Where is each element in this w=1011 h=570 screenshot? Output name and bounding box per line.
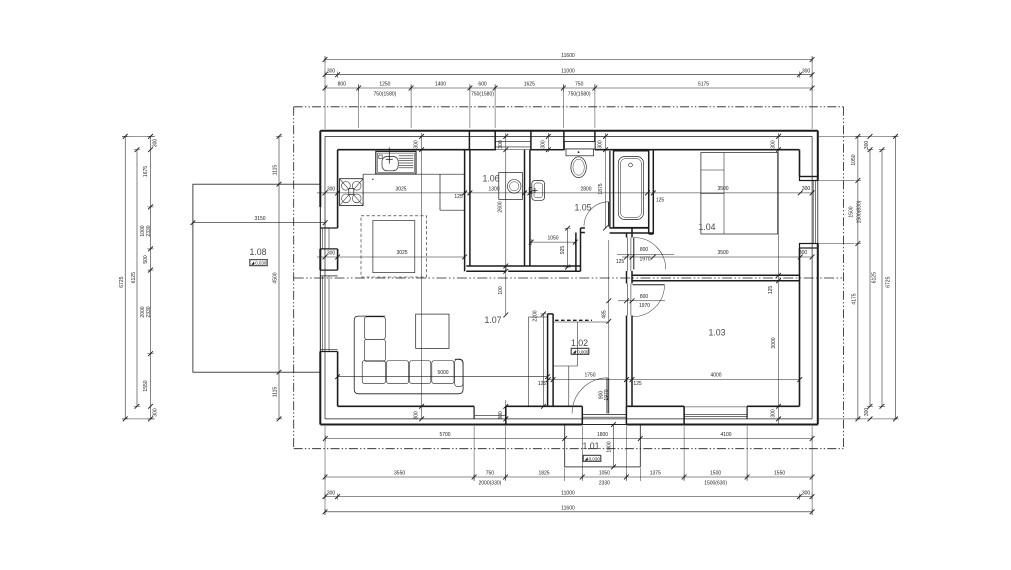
- svg-text:2800: 2800: [580, 187, 591, 193]
- svg-text:3550: 3550: [394, 471, 405, 477]
- svg-text:125: 125: [633, 381, 642, 387]
- svg-text:6125: 6125: [131, 272, 137, 283]
- svg-text:1.08: 1.08: [249, 247, 266, 257]
- svg-text:11600: 11600: [561, 506, 575, 512]
- bath dim 1050: [531, 241, 575, 243]
- bath niche jog wall: [576, 228, 581, 271]
- terrace 1.08 outline: [193, 184, 320, 372]
- dining table dashed: [361, 216, 427, 277]
- svg-text:1500(830): 1500(830): [857, 200, 863, 223]
- svg-text:1970: 1970: [639, 257, 650, 263]
- svg-text:1625: 1625: [524, 82, 535, 88]
- svg-text:4500: 4500: [273, 272, 279, 283]
- svg-text:1.03: 1.03: [708, 328, 725, 338]
- svg-text:800: 800: [640, 294, 649, 300]
- bathtub: [610, 151, 649, 228]
- svg-text:750(1580): 750(1580): [374, 91, 397, 97]
- svg-text:3025: 3025: [395, 187, 406, 193]
- svg-text:1500: 1500: [710, 471, 721, 477]
- right wall interior face and window: [800, 150, 818, 407]
- bathroom door leaf and swing: [584, 202, 609, 227]
- svg-text:3025: 3025: [396, 250, 407, 256]
- svg-text:100: 100: [498, 286, 504, 295]
- svg-text:300: 300: [153, 139, 159, 148]
- coffee table square: [416, 314, 449, 348]
- internal vertical dim line x=608.8 with 485: [602, 240, 612, 378]
- sofa L-shaped: [354, 316, 463, 394]
- facade outer wall outline: [320, 131, 818, 425]
- kitchen sink unit: [376, 148, 416, 175]
- svg-text:300: 300: [771, 409, 777, 418]
- svg-text:1970: 1970: [639, 303, 650, 309]
- svg-text:1300: 1300: [488, 187, 499, 193]
- svg-text:1.02: 1.02: [571, 338, 588, 348]
- internal vertical dim line x=548.3 top: [540, 133, 550, 152]
- kitchen stove: [340, 179, 364, 206]
- door 1.04 dim 800/1970: [616, 247, 674, 265]
- right dims 300 ticks: [869, 150, 871, 407]
- washing machine: [499, 173, 523, 200]
- svg-text:1550: 1550: [143, 380, 149, 391]
- svg-text:1115: 1115: [273, 165, 279, 176]
- svg-text:2600: 2600: [498, 201, 504, 212]
- top wall interior face and piers: [338, 131, 800, 150]
- svg-text:4000: 4000: [710, 373, 721, 379]
- svg-text:125: 125: [616, 259, 625, 265]
- svg-text:1000: 1000: [606, 441, 612, 452]
- terrace dims 1115 4500 1115: [278, 136, 280, 419]
- svg-text:1050: 1050: [599, 471, 610, 477]
- top dimension row segments: [325, 87, 812, 89]
- extension lines left: [122, 136, 155, 419]
- svg-text:4175: 4175: [852, 293, 858, 304]
- svg-text:1250: 1250: [379, 82, 390, 88]
- svg-text:1050: 1050: [547, 235, 558, 241]
- svg-text:750: 750: [486, 471, 495, 477]
- interior dim row y=257: [317, 250, 815, 259]
- internal vertical dim line x=605.5 with 1875: [598, 133, 608, 230]
- wall between 1.06 and 1.05: [525, 150, 530, 266]
- bottom wall interior face, windows and door openings: [338, 406, 800, 424]
- bathroom south wall with door opening: [581, 228, 654, 233]
- bed in 1.04: [701, 153, 778, 234]
- svg-text:800: 800: [640, 247, 649, 253]
- interior dim row y=192.9: [317, 186, 815, 203]
- svg-text:1.06: 1.06: [482, 174, 499, 184]
- porch dim 1000 vertical: [613, 425, 615, 467]
- svg-text:-0,030: -0,030: [254, 261, 267, 266]
- svg-text:1500(630): 1500(630): [704, 481, 727, 487]
- svg-text:6725: 6725: [886, 276, 892, 287]
- door to 1.03 leaf and swing: [633, 285, 665, 317]
- svg-text:300: 300: [802, 68, 811, 74]
- dim 2200 vertical: [543, 314, 545, 406]
- right dims 6725: [895, 136, 897, 419]
- 1.02 closet walls: [548, 314, 608, 406]
- svg-text:1970: 1970: [604, 389, 610, 400]
- svg-text:300: 300: [498, 140, 504, 149]
- svg-text:5700: 5700: [439, 432, 450, 438]
- porch 1.01 slab: [565, 425, 641, 467]
- door to 1.04 leaf and swing: [634, 238, 666, 270]
- svg-text:6125: 6125: [872, 272, 878, 283]
- svg-text:1.01: 1.01: [582, 441, 599, 451]
- bath dim 925: [567, 228, 569, 267]
- top dimension row 11600: [325, 59, 812, 61]
- svg-text:1400: 1400: [435, 82, 446, 88]
- extension lines bottom: [325, 426, 812, 515]
- bottom dimension row 11600: [325, 511, 812, 513]
- svg-text:750: 750: [575, 82, 584, 88]
- svg-text:300: 300: [153, 408, 159, 417]
- svg-text:-0,030: -0,030: [587, 456, 600, 461]
- svg-text:125: 125: [538, 381, 547, 387]
- svg-text:2330: 2330: [599, 481, 610, 487]
- svg-text:+0,000: +0,000: [575, 349, 589, 354]
- svg-text:1800: 1800: [597, 432, 608, 438]
- corridor wall x=626.5-632 with door openings: [627, 228, 633, 406]
- svg-text:300: 300: [864, 141, 870, 150]
- svg-text:300: 300: [540, 140, 546, 149]
- dim row 1750 / 125 / 4000: [538, 373, 802, 387]
- section line A-A: [294, 277, 844, 279]
- svg-text:11000: 11000: [561, 490, 575, 496]
- svg-text:4100: 4100: [720, 432, 731, 438]
- svg-text:3000: 3000: [771, 337, 777, 348]
- svg-text:3150: 3150: [254, 216, 265, 222]
- svg-text:1675: 1675: [143, 166, 149, 177]
- svg-text:2330: 2330: [146, 225, 152, 236]
- svg-text:1.04: 1.04: [698, 222, 715, 232]
- toilet: [565, 142, 596, 178]
- left wall interior face, openings A and B: [320, 150, 337, 407]
- svg-text:500: 500: [143, 255, 149, 264]
- wardrobe rect in living room against 1.02 wall: [529, 317, 548, 406]
- svg-text:2000(330): 2000(330): [479, 481, 502, 487]
- svg-text:3500: 3500: [717, 186, 728, 192]
- kitchen / 1.06 left wall: [465, 150, 470, 272]
- svg-text:300: 300: [414, 411, 420, 420]
- svg-text:125: 125: [768, 286, 774, 295]
- svg-text:5000: 5000: [437, 370, 448, 376]
- svg-text:5175: 5175: [698, 82, 709, 88]
- left dims 6725: [124, 136, 126, 419]
- svg-text:1.05: 1.05: [574, 203, 591, 213]
- svg-text:1825: 1825: [538, 471, 549, 477]
- svg-text:300: 300: [327, 187, 336, 193]
- svg-text:300: 300: [327, 68, 336, 74]
- bathtub bay wall (1.05/1.04): [649, 150, 654, 234]
- svg-text:925: 925: [560, 246, 566, 255]
- svg-text:600: 600: [478, 82, 487, 88]
- plot frame (dash-dot boundary): [294, 107, 844, 449]
- svg-text:300: 300: [802, 186, 811, 192]
- right dims 6125: [881, 150, 883, 407]
- svg-text:2200: 2200: [533, 310, 539, 321]
- bottom dimension row 300-11000-300: [325, 496, 812, 498]
- svg-text:1500: 1500: [849, 206, 855, 217]
- svg-text:300: 300: [799, 250, 808, 256]
- svg-text:300: 300: [864, 408, 870, 417]
- svg-text:11000: 11000: [561, 68, 575, 74]
- svg-text:300: 300: [498, 411, 504, 420]
- svg-text:485: 485: [602, 310, 608, 319]
- svg-text:1750: 1750: [584, 373, 595, 379]
- terrace dim 3150: [193, 222, 325, 224]
- svg-text:1875: 1875: [598, 183, 604, 194]
- entry door leaf and swing: [572, 378, 609, 414]
- svg-text:300: 300: [598, 140, 604, 149]
- svg-text:125: 125: [454, 194, 463, 200]
- top dimension row 300-11000-300: [325, 74, 812, 76]
- internal vertical dim line x=505.8: [498, 133, 508, 425]
- svg-text:11600: 11600: [561, 53, 575, 59]
- svg-text:1050: 1050: [851, 154, 857, 165]
- left dims 6125: [136, 150, 138, 407]
- svg-text:300: 300: [327, 490, 336, 496]
- svg-text:300: 300: [802, 490, 811, 496]
- dim 5000 sofa wall: [338, 376, 548, 378]
- bottom dimension row segments: [325, 476, 812, 478]
- svg-text:300: 300: [327, 251, 336, 257]
- internal vertical dim line x=421.6: [414, 133, 424, 421]
- svg-text:750(1580): 750(1580): [568, 91, 591, 97]
- svg-text:3500: 3500: [717, 250, 728, 256]
- kitchen counter: [363, 174, 465, 210]
- svg-text:2330: 2330: [146, 306, 152, 317]
- svg-text:1.07: 1.07: [484, 315, 501, 325]
- internal vertical dim line x=778.5 with 3000: [768, 133, 781, 425]
- bottom dimension row 5700-1800-4100: [325, 438, 812, 440]
- svg-text:800: 800: [338, 82, 347, 88]
- door 1.03 dim 800/1970: [618, 294, 665, 309]
- right dims segments 1050 1500 4175: [857, 136, 859, 419]
- svg-text:1550: 1550: [774, 471, 785, 477]
- structural wall line: [325, 136, 812, 419]
- svg-text:300: 300: [414, 140, 420, 149]
- extension lines top: [325, 56, 812, 129]
- svg-text:750(1580): 750(1580): [471, 91, 494, 97]
- washbasin: [529, 181, 544, 201]
- left dims segments: [150, 136, 152, 419]
- svg-text:1115: 1115: [273, 387, 279, 398]
- bottom wall of 1.06 and bath niche: [466, 266, 580, 271]
- svg-text:1375: 1375: [650, 471, 661, 477]
- extension lines right: [800, 136, 897, 419]
- wall between 1.04 and 1.03: [632, 275, 800, 281]
- svg-text:6725: 6725: [119, 276, 125, 287]
- svg-text:300: 300: [771, 140, 777, 149]
- svg-text:125: 125: [656, 198, 665, 204]
